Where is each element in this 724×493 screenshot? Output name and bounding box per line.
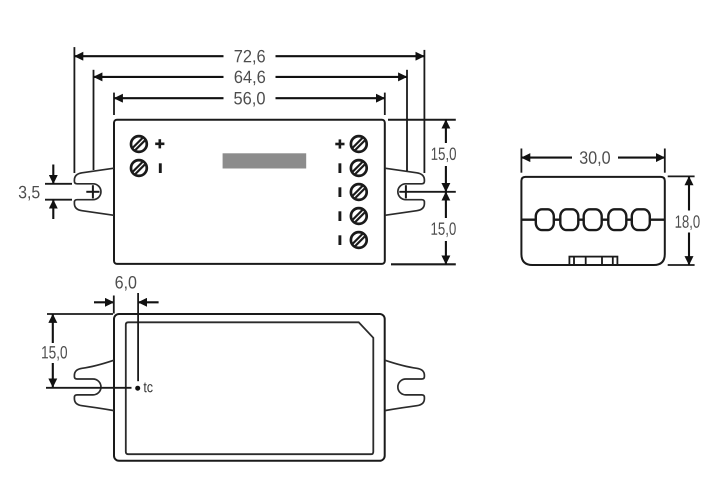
label - (left, vertical bar) bbox=[159, 163, 162, 173]
left ear slot center mark bbox=[86, 191, 99, 193]
housing outline bottom view bbox=[114, 314, 385, 461]
dim text 15,0 lower bbox=[432, 222, 456, 237]
dimension 15,0 lower line bbox=[445, 192, 447, 264]
dim text 6,0 bbox=[116, 276, 137, 291]
terminal screw right 1 bbox=[351, 136, 367, 152]
terminal screw left 2 bbox=[131, 160, 147, 176]
dimension 15,0 bottom view line bbox=[52, 314, 54, 387]
dimension 15,0 upper line bbox=[445, 120, 447, 192]
terminal screw right 2 bbox=[351, 160, 367, 176]
tc leader line vertical bbox=[137, 293, 139, 381]
dimension 15,0 upper-right extension lines bbox=[388, 119, 456, 121]
dimension 18,0 line bbox=[688, 176, 690, 265]
left mounting ear bbox=[74, 168, 114, 215]
dim text 15,0 upper bbox=[432, 147, 456, 162]
dimension 3,5 extension lines bbox=[45, 183, 72, 185]
dim text 18,0 bbox=[676, 215, 700, 230]
dim text 64,6 bbox=[235, 71, 265, 86]
label + (left) bbox=[155, 139, 164, 148]
dimension 72,6 extension lines bbox=[73, 47, 75, 173]
dim text 3,5 bbox=[19, 186, 40, 201]
dimension 56,0 line bbox=[114, 97, 385, 99]
dim text 15,0 bottom view bbox=[42, 346, 67, 361]
tc label text bbox=[144, 383, 153, 393]
right ear slot center mark + extension to 15,0 dims bbox=[399, 191, 456, 193]
dimension 64,6 line bbox=[94, 76, 408, 78]
terminal bump 3 bbox=[584, 209, 602, 230]
terminal bump 2 bbox=[560, 209, 578, 230]
left mounting ear bottom view bbox=[74, 360, 114, 410]
labels - (right column, vertical bars) bbox=[338, 163, 341, 245]
dimension 6,0 extension line bbox=[113, 296, 115, 314]
terminal screw right 3 bbox=[351, 184, 367, 200]
terminal bump 4 bbox=[608, 209, 626, 230]
tc point bbox=[135, 386, 140, 391]
dimension 18,0 extension lines bbox=[668, 175, 695, 177]
dim text 56,0 bbox=[234, 92, 265, 107]
terminal row center line bbox=[521, 218, 664, 220]
dimension 6,0 arrows bbox=[94, 301, 114, 303]
dimension 72,6 line bbox=[74, 55, 424, 57]
housing body side view bbox=[521, 177, 664, 265]
dimension 64,6 extension lines bbox=[93, 70, 95, 170]
right mounting ear bbox=[385, 168, 425, 215]
terminal bump 5 bbox=[632, 209, 650, 230]
right mounting ear bottom view bbox=[385, 360, 425, 410]
dimension 15,0 bottom view extension line bbox=[47, 313, 113, 315]
label + (right) bbox=[335, 139, 344, 148]
terminal bump 1 bbox=[536, 209, 554, 230]
dimension 30,0 line bbox=[521, 157, 664, 159]
dimension 3,5 arrows bbox=[52, 165, 54, 184]
dim text 30,0 bbox=[580, 151, 610, 166]
terminal screw right 4 bbox=[351, 208, 367, 224]
tc leader line horizontal from 15,0 bbox=[46, 387, 132, 389]
bottom clip detail bbox=[569, 257, 617, 265]
terminal screw left 1 bbox=[131, 136, 147, 152]
dimension 30,0 extension lines bbox=[520, 149, 522, 173]
housing body front view bbox=[114, 120, 385, 264]
terminal screw right 5 bbox=[351, 232, 367, 248]
dimension 56,0 extension lines bbox=[113, 93, 115, 115]
inner cover outline with chamfer bbox=[126, 322, 373, 454]
dim text 72,6 bbox=[235, 50, 265, 65]
sticker label area bbox=[223, 153, 307, 168]
